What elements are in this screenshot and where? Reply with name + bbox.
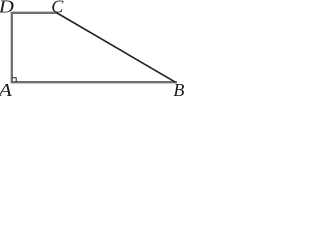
svg-text:C: C <box>51 0 64 16</box>
svg-text:B: B <box>173 80 184 97</box>
svg-text:A: A <box>0 80 13 97</box>
side AB (bottom edge) <box>11 81 177 83</box>
side DC (top edge) <box>11 12 57 14</box>
right-angle mark at A <box>12 78 16 82</box>
side AD (left edge) <box>11 12 13 84</box>
svg-text:D: D <box>0 0 14 16</box>
side CB (slanted edge) <box>56 13 175 83</box>
